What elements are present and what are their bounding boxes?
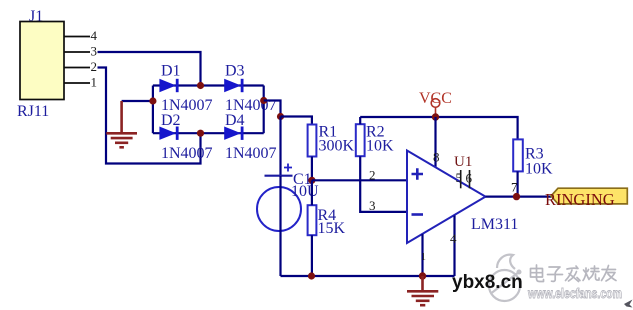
svg-text:10K: 10K xyxy=(366,138,394,155)
VCC rail wire xyxy=(360,117,517,139)
bridge right vertical wire xyxy=(263,86,265,134)
node bridge output xyxy=(260,97,267,104)
svg-text:D4: D4 xyxy=(225,112,245,129)
node R4 bottom xyxy=(308,272,315,279)
bridge top rail wire xyxy=(153,84,264,86)
J1 pin 1 xyxy=(64,82,90,84)
wire R4 top xyxy=(311,180,313,205)
J1 pin 2 xyxy=(64,67,90,69)
svg-text:2: 2 xyxy=(91,59,98,74)
svg-text:7: 7 xyxy=(511,180,518,195)
ground GND2 xyxy=(407,276,438,305)
watermark chinese characters 电子发烧友 xyxy=(531,265,617,282)
port RINGING flag xyxy=(551,188,627,204)
node bridge top middle xyxy=(197,82,204,89)
op-amp pin 4 wire xyxy=(453,216,455,277)
resistor R4 xyxy=(308,205,317,235)
bottom rail wire xyxy=(281,275,455,277)
bridge bottom rail wire xyxy=(153,132,264,134)
op-amp pin 7 output wire xyxy=(486,196,552,198)
svg-text:3: 3 xyxy=(369,198,376,213)
wire junction to op-amp pin 2 xyxy=(312,179,406,181)
svg-text:300K: 300K xyxy=(319,138,355,155)
op-amp pin 5 xyxy=(460,170,462,188)
svg-text:www.elecfans.com: www.elecfans.com xyxy=(527,285,622,301)
svg-text:LM311: LM311 xyxy=(471,216,518,233)
J1 pin 4 xyxy=(64,36,90,38)
watermark cursor xyxy=(624,300,633,308)
resistor R2 xyxy=(356,124,365,156)
wire R3 bottom to output xyxy=(516,171,518,196)
diode D1 xyxy=(159,79,177,92)
op-amp pin 6 xyxy=(469,170,471,188)
svg-text:3: 3 xyxy=(91,44,98,59)
node output junction xyxy=(513,193,520,200)
svg-text:1: 1 xyxy=(91,75,98,90)
resistor R3 xyxy=(513,139,523,171)
svg-text:2: 2 xyxy=(369,168,376,183)
watermark bird logo xyxy=(489,255,520,301)
svg-text:6: 6 xyxy=(466,171,473,186)
wire from bridge left node to ground xyxy=(122,100,153,102)
J1 pin 3 xyxy=(64,51,90,53)
node at bridge left xyxy=(149,97,156,104)
svg-text:4: 4 xyxy=(450,231,457,246)
svg-text:8: 8 xyxy=(433,150,440,165)
svg-text:10U: 10U xyxy=(291,183,319,200)
ground GND1 xyxy=(106,101,137,147)
wire from J1 pin 2 to bridge bottom node xyxy=(98,68,201,164)
op-amp minus input symbol xyxy=(412,213,424,216)
node VCC junction xyxy=(432,113,439,120)
wire R4 bottom xyxy=(311,235,313,276)
svg-text:1: 1 xyxy=(421,251,427,263)
power port VCC xyxy=(419,90,452,117)
bridge left vertical wire xyxy=(152,86,154,134)
wire to R1 top xyxy=(281,117,312,125)
svg-text:RINGING: RINGING xyxy=(545,190,615,209)
diode D3 xyxy=(224,79,242,92)
svg-text:1N4007: 1N4007 xyxy=(161,145,213,162)
node R1/R4/pin2 junction xyxy=(308,177,315,184)
svg-text:D3: D3 xyxy=(225,63,245,80)
svg-text:5: 5 xyxy=(456,170,463,185)
node C1 top branch xyxy=(277,113,284,120)
svg-text:4: 4 xyxy=(91,28,98,43)
diode D4 xyxy=(224,127,242,140)
wire bridge output jog xyxy=(264,101,281,117)
svg-text:D2: D2 xyxy=(161,112,181,129)
node ground junction xyxy=(419,272,426,279)
connector J1 body xyxy=(20,22,64,100)
op-amp U1 LM311 xyxy=(407,151,486,244)
capacitor C1 xyxy=(257,164,301,232)
svg-text:U1: U1 xyxy=(454,154,472,170)
wire down to C1 xyxy=(279,117,281,176)
resistor R1 xyxy=(308,125,317,157)
op-amp plus input symbol xyxy=(412,168,424,180)
wire R2 top to VCC rail xyxy=(359,117,361,124)
wire R2 bottom to op-amp pin 3 xyxy=(360,156,406,212)
svg-text:10K: 10K xyxy=(525,161,553,178)
diode D2 xyxy=(159,127,177,140)
svg-text:15K: 15K xyxy=(318,220,346,237)
svg-text:RJ11: RJ11 xyxy=(17,103,49,120)
wire VCC to op-amp pin 8 xyxy=(434,117,436,168)
node bridge bottom middle xyxy=(197,130,204,137)
wire C1 bottom xyxy=(279,176,281,276)
svg-text:1N4007: 1N4007 xyxy=(225,145,277,162)
wire from J1 pin 3 to bridge top node xyxy=(98,52,201,86)
svg-text:ybx8.cn: ybx8.cn xyxy=(452,272,523,293)
svg-text:D1: D1 xyxy=(161,63,181,80)
op-amp pin 1 wire xyxy=(421,234,423,276)
wire R1 bottom xyxy=(311,157,313,181)
